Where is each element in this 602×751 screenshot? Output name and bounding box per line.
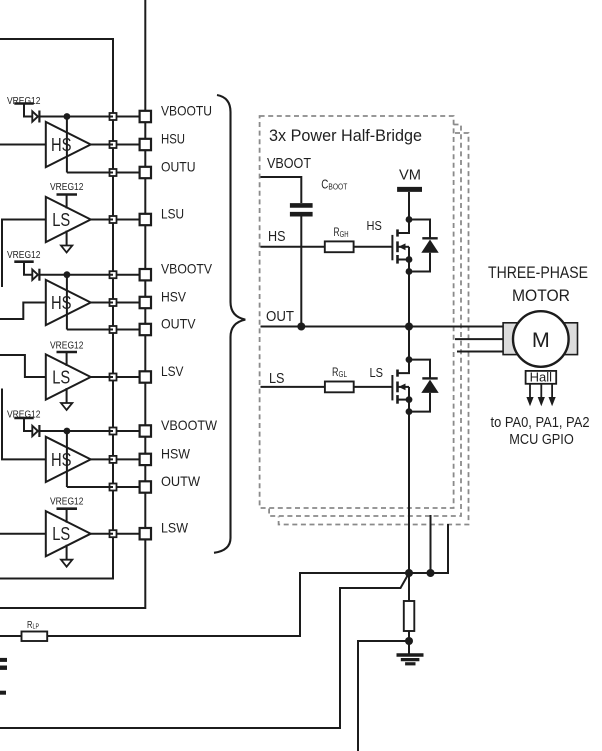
wire phase W to motor (457, 351, 503, 353)
resistor RGL (325, 382, 354, 393)
diode DW (bootstrap) (32, 426, 38, 436)
op-amp style buffer HS driver (W) (46, 437, 91, 482)
pin pad inner OUTV (110, 326, 117, 333)
wire sense resistor top (408, 573, 410, 601)
wire HSU input (0, 144, 46, 146)
resistor RGH (325, 241, 354, 252)
pin pad outer OUTV (140, 324, 151, 335)
svg-text:VM: VM (399, 167, 421, 184)
wire low-side source down (408, 412, 410, 573)
wire pin row LSW (113, 533, 145, 535)
pin pad outer OUTW (140, 481, 151, 492)
wire phase V to motor (455, 338, 503, 340)
junction dot node VBOOTU (64, 113, 71, 120)
wire phase copy 3 down (409, 524, 448, 573)
wire LSV input (0, 355, 46, 377)
junction dot source stub (406, 256, 413, 263)
wire sense node diagonal feedback to MCU (0, 573, 409, 728)
capacitor plate stub 1 (cut at edge) (0, 658, 7, 662)
transistor Q_LS source stub (398, 399, 410, 401)
svg-text:LS: LS (52, 524, 70, 544)
wire VREG12 stub to diode (U) (24, 104, 32, 117)
transistor Q_LS body arrow (398, 386, 410, 388)
svg-text:3x Power Half-Bridge: 3x Power Half-Bridge (269, 126, 422, 145)
op-amp style buffer HS driver (V) (46, 280, 91, 325)
pin pad outer LSU (140, 214, 151, 225)
svg-text:HSV: HSV (161, 289, 187, 305)
wire bootstrap rail through driver to OUTU (66, 117, 68, 173)
wire OUT to low-side drain (408, 327, 410, 360)
gate-driver IC boundary (top and right edges) (0, 39, 113, 579)
resistor RLP (22, 632, 48, 642)
wire current sense tap (358, 641, 409, 751)
svg-text:to PA0, PA1, PA2: to PA0, PA1, PA2 (491, 415, 590, 431)
wire LSU input (2, 220, 46, 288)
pin pad inner OUTU (110, 169, 117, 176)
svg-text:LS: LS (370, 366, 384, 380)
pin pad outer LSV (140, 371, 151, 382)
pin pad inner OUTW (110, 484, 117, 491)
wire OUT phase line to motor (261, 326, 504, 328)
transistor Q_LS drain stub (398, 360, 410, 374)
wire RGH to gate (354, 246, 393, 248)
VREG12 rail bar (V high side) (14, 260, 33, 263)
svg-text:HSU: HSU (161, 131, 185, 147)
wire HSW input (2, 389, 46, 460)
wire pin row OUTW (113, 486, 145, 488)
svg-text:LS: LS (269, 371, 285, 387)
junction dot node VBOOTW (64, 428, 71, 435)
wire bootstrap rail through driver to OUTV (66, 275, 68, 330)
hall output arrow 3 (551, 384, 553, 399)
pin pad outer HSW (140, 454, 151, 465)
junction dot source stub (406, 396, 413, 403)
Hall sensor box (526, 371, 557, 384)
wire pin row VBOOTV (113, 274, 145, 276)
VREG12 rail bar (LS V) (57, 351, 78, 354)
pin pad inner HSW (110, 456, 117, 463)
VREG12 rail bar (LS U) (57, 193, 78, 196)
wire OUTU row from driver (67, 172, 113, 174)
supply rail bar VM (397, 187, 422, 192)
ground symbol (LS V) (61, 403, 72, 410)
wire VREG12 stub into LS driver (U) (66, 195, 68, 209)
wire body/source vertical (408, 387, 410, 412)
wire pin row OUTV (113, 329, 145, 331)
op-amp style buffer LS driver (U) (46, 197, 91, 242)
pin pad outer VBOOTU (140, 111, 151, 122)
wire LS gate drive (261, 386, 325, 388)
junction dot source node (406, 268, 413, 275)
op-amp style buffer HS driver (U) (46, 122, 91, 167)
op-amp style buffer LS driver (V) (46, 354, 91, 399)
wire LSV output (91, 376, 113, 378)
junction dot node VBOOTV (64, 271, 71, 278)
op-amp style buffer LS driver (W) (46, 511, 91, 556)
wire pin row HSW (113, 458, 145, 460)
svg-text:HS: HS (51, 135, 72, 155)
wire diode to pin VBOOTW (39, 430, 113, 432)
dashed box 2 (power half-bridge copy 1) (269, 125, 461, 517)
pin pad outer LSW (140, 528, 151, 539)
pin pad inner LSW (110, 530, 117, 537)
pin pad outer HSV (140, 297, 151, 308)
svg-text:OUT: OUT (266, 309, 294, 325)
svg-text:HS: HS (51, 450, 72, 470)
svg-text:LS: LS (52, 210, 70, 230)
wire LSU output (91, 219, 113, 221)
junction dot drain node (406, 356, 413, 363)
svg-text:VREG12: VREG12 (50, 340, 84, 352)
curly brace 3x grouping (214, 95, 245, 553)
svg-text:LSU: LSU (161, 206, 184, 222)
wire diode to pin VBOOTU (39, 116, 113, 118)
transistor Q_HS drain stub (398, 220, 410, 234)
wire pin row LSV (113, 376, 145, 378)
svg-text:LS: LS (52, 368, 70, 388)
wire RLP to left edge (0, 635, 22, 637)
svg-text:HS: HS (268, 229, 286, 245)
wire VBOOT to CBOOT (261, 177, 302, 203)
pin pad inner VBOOTV (110, 271, 117, 278)
wire LSW output (91, 533, 113, 535)
ground symbol (LS U) (61, 246, 72, 253)
svg-text:VBOOT: VBOOT (267, 156, 311, 172)
wire VREG12 stub into LS driver (V) (66, 352, 68, 366)
svg-text:LSW: LSW (161, 520, 189, 536)
svg-text:Hall: Hall (530, 370, 553, 385)
transistor Q_LS channel segments (396, 370, 399, 377)
junction dot OUT/CBOOT (297, 323, 305, 331)
transistor Q_HS source stub (398, 259, 410, 261)
wire RGL to gate (354, 386, 393, 388)
wire bootstrap rail through driver to OUTW (66, 431, 68, 487)
wire CBOOT to OUT (300, 217, 302, 327)
wire phase copy 2 down (430, 515, 432, 573)
wire VREG12 stub to diode (V) (24, 262, 32, 275)
wire pin row OUTU (113, 172, 145, 174)
pin pad inner LSU (110, 216, 117, 223)
wire HSV output (91, 302, 113, 304)
wire pin row LSU (113, 219, 145, 221)
dashed box 1: 3x Power Half-Bridge (260, 116, 454, 508)
pin pad outer VBOOTW (140, 425, 151, 436)
VREG12 rail bar (LS W) (57, 507, 78, 510)
pin pad inner HSV (110, 299, 117, 306)
wire sense resistor to ground (408, 631, 410, 654)
wire VREG12 stub into LS driver (W) (66, 509, 68, 523)
hall output arrow 1 (529, 384, 531, 399)
wire HS gate drive (261, 246, 325, 248)
pin pad outer VBOOTV (140, 269, 151, 280)
junction dot OUT/bridge (405, 323, 413, 331)
wire VREG12 stub to diode (W) (24, 418, 32, 431)
svg-text:OUTV: OUTV (161, 316, 196, 332)
svg-text:MCU GPIO: MCU GPIO (509, 432, 574, 448)
motor stator block left (503, 323, 519, 355)
junction dot sense node main (405, 569, 413, 577)
svg-text:OUTW: OUTW (161, 473, 201, 489)
wire diode to pin VBOOTV (39, 274, 113, 276)
svg-text:HS: HS (367, 219, 382, 233)
svg-text:VBOOTV: VBOOTV (161, 261, 213, 277)
wire sense node to RLP elbow (47, 573, 409, 636)
svg-text:HSW: HSW (161, 445, 191, 461)
transistor Q_LS (N-MOSFET) gate bar (391, 375, 393, 400)
hall output arrow 2 (540, 384, 542, 399)
svg-text:THREE-PHASE: THREE-PHASE (488, 263, 588, 282)
transistor Q_HS body arrow (398, 246, 410, 248)
body diode of Q_LS (409, 360, 430, 379)
VREG12 rail bar (U high side) (14, 102, 33, 105)
svg-text:M: M (532, 328, 550, 352)
wire OUTV row from driver (67, 329, 113, 331)
dashed box 3 (power half-bridge copy 2) (279, 133, 469, 525)
transistor Q_HS (N-MOSFET) gate bar (391, 235, 393, 260)
wire pin row HSV (113, 302, 145, 304)
body diode of Q_HS (409, 220, 430, 239)
wire OUTW row from driver (67, 486, 113, 488)
pin pad outer HSU (140, 139, 151, 150)
wire ground stub (LS V) (66, 388, 68, 403)
capacitor plate stub 2 (cut at edge) (0, 666, 7, 670)
motor stator block right (563, 323, 578, 355)
ground symbol (power ground) (397, 653, 424, 656)
wire ground stub (LS U) (66, 231, 68, 246)
svg-text:LSV: LSV (161, 363, 184, 379)
wire VM to high-side drain (408, 192, 410, 220)
svg-text:VREG12: VREG12 (50, 496, 84, 508)
ground symbol (LS W) (61, 560, 72, 567)
wire pin row VBOOTU (113, 116, 145, 118)
wire ground stub (LS W) (66, 545, 68, 560)
pin pad inner LSV (110, 374, 117, 381)
bar stub (cut at edge) (0, 691, 6, 695)
svg-text:VBOOTU: VBOOTU (161, 103, 212, 119)
resistor R_sense (404, 601, 415, 631)
wire pin row VBOOTW (113, 430, 145, 432)
wire high-side source to OUT (408, 272, 410, 327)
wire LSW input (0, 533, 46, 535)
VREG12 rail bar (W high side) (14, 417, 33, 420)
junction dot source node (406, 408, 413, 415)
junction dot sense node copy2 (427, 569, 435, 577)
svg-text:MOTOR: MOTOR (512, 286, 570, 305)
junction dot sense/ground (405, 637, 413, 645)
wire HSU output (91, 144, 113, 146)
pin pad inner HSU (110, 141, 117, 148)
transistor Q_HS channel segments (396, 229, 399, 236)
motor M circle (513, 311, 569, 367)
svg-text:OUTU: OUTU (161, 159, 196, 175)
junction dot drain node (406, 216, 413, 223)
svg-text:VREG12: VREG12 (7, 249, 41, 261)
wire HSV input (0, 303, 46, 320)
wire HSW output (91, 458, 113, 460)
svg-text:VREG12: VREG12 (50, 181, 84, 193)
pin pad inner VBOOTU (110, 113, 117, 120)
capacitor CBOOT (290, 203, 313, 208)
diode DU (bootstrap) (32, 111, 38, 121)
outer pin rail wire (0, 0, 145, 608)
wire pin row HSU (113, 144, 145, 146)
pin pad outer OUTU (140, 167, 151, 178)
svg-text:VBOOTW: VBOOTW (161, 417, 218, 433)
wire body/source vertical (408, 247, 410, 272)
diode DV (bootstrap) (32, 270, 38, 280)
pin pad inner VBOOTW (110, 428, 117, 435)
svg-text:HS: HS (51, 293, 72, 313)
